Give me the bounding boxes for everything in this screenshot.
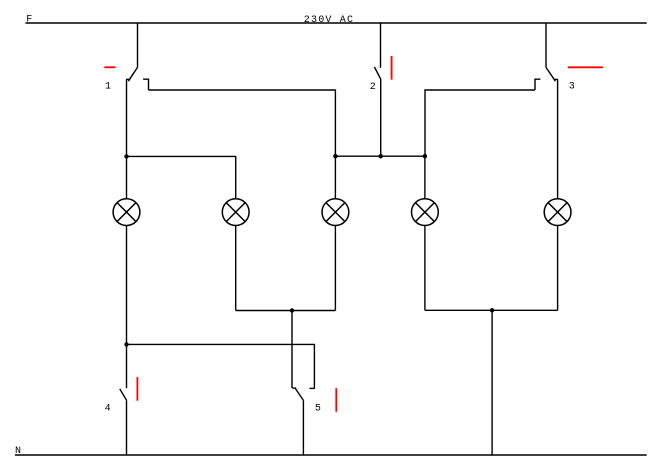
wire node run y=156 left (to lamp L2) [127,156,236,198]
wire switch 4 to N rail [126,400,128,455]
wire junction to lamp L1 [126,156,128,198]
wire junction B1 down to switch 5 throw [291,311,293,389]
switch 1 (SPDT changeover) [126,67,149,90]
wire junction to lamp L4 [424,156,426,199]
wire lamp L4 bottom [424,226,426,311]
junction dot A3 [379,154,383,158]
junction dot C1 [124,342,128,346]
red mark switch 2 [391,56,393,80]
wire run L2-L3 (y=310) [236,310,336,312]
junction dot A2 [333,154,337,158]
switch 4 (SPST open) [120,389,127,400]
svg-text:F: F [26,15,32,26]
junction dot B1 [290,308,294,312]
wire run L4-L5 (y=310) [425,309,558,311]
wire switch 5 pole to N rail [302,400,304,455]
wire lamp L2 bottom [235,226,237,311]
svg-text:2: 2 [370,82,376,93]
wire N rail [15,454,647,456]
wire switch 3 second throw to lamp L4 branch [425,90,535,156]
wire F rail to switch 2 [380,23,382,68]
svg-text:3: 3 [569,82,575,93]
wire F rail [25,22,646,24]
svg-text:4: 4 [105,404,111,415]
svg-text:5: 5 [315,404,321,415]
wire junction C1 to switch 5 second throw [127,344,315,388]
red mark switch 1 [104,66,115,68]
wire switch 3 pole down to lamp L5 [557,79,559,198]
switch 3 (SPDT changeover, mirrored) [535,67,558,90]
wire lamp L5 bottom [557,226,559,311]
wire switch 1 pole down to junction [126,79,128,156]
red mark switch 4 [136,377,138,401]
lamp L5 [544,199,571,226]
lamp L1 [113,199,140,226]
wire junction to lamp L3 [334,156,336,199]
red mark switch 5 [335,388,337,412]
junction dot A4 [423,154,427,158]
wire switch 2 to junction node [380,79,382,156]
lamp L4 [412,199,439,226]
svg-text:230V AC: 230V AC [304,15,354,26]
switch 2 (SPST open) [374,67,380,79]
wire F rail to switch 1 [137,23,139,67]
wire junction B2 down to N rail [491,310,493,455]
switch 5 (SPDT changeover) [292,388,314,400]
wire lamp L3 bottom [334,226,336,311]
wire switch 1 second throw to node (y=90 run) [149,90,336,156]
lamp L3 [322,199,349,226]
wire lamp L1 bottom to switch 4 [126,226,128,389]
red mark switch 3 [568,66,603,68]
lamp L2 [222,199,249,226]
junction dot A1 [124,154,128,158]
svg-text:1: 1 [105,82,111,93]
wire F rail to switch 3 [545,23,547,67]
junction dot B2 [490,308,494,312]
wire node run y=156 right [335,155,425,157]
